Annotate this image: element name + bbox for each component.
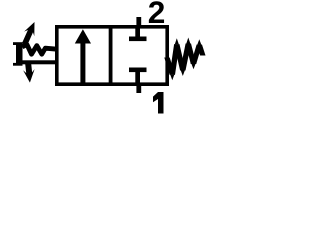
actuation arrow up-right bbox=[22, 22, 35, 46]
2/2-way valve schematic, lever operated, spring return bbox=[0, 0, 236, 118]
valve body right square bbox=[111, 27, 168, 84]
port label 1 (drawn, Arial-style without foot) bbox=[153, 92, 164, 114]
svg-text:2: 2 bbox=[148, 0, 166, 30]
actuation arrow down-left bbox=[23, 62, 34, 83]
lever spring (small zigzag) bbox=[22, 45, 57, 55]
lever plate bbox=[13, 42, 23, 66]
port 2 stub bbox=[136, 17, 141, 26]
blocked port T top, right square bbox=[129, 28, 147, 41]
plunger rod bbox=[22, 60, 59, 64]
port 1 stub bbox=[136, 85, 141, 93]
return spring, right side bbox=[164, 38, 205, 81]
blocked port T bottom, right square bbox=[129, 68, 147, 83]
valve body left square bbox=[57, 27, 111, 84]
flow arrow in left square bbox=[75, 29, 91, 83]
